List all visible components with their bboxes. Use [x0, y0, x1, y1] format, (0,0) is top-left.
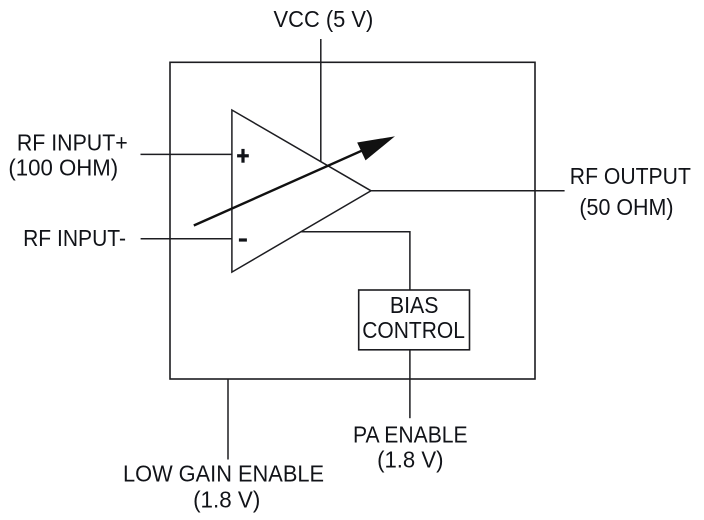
svg-text:PA ENABLE: PA ENABLE — [353, 421, 468, 447]
svg-text:(100 OHM): (100 OHM) — [8, 154, 118, 180]
wire VCC vertical — [320, 39, 322, 162]
svg-text:(1.8 V): (1.8 V) — [193, 486, 260, 512]
svg-text:LOW GAIN ENABLE: LOW GAIN ENABLE — [123, 460, 324, 486]
svg-text:(1.8 V): (1.8 V) — [377, 446, 443, 472]
minus input marker — [239, 238, 247, 241]
plus input marker — [237, 149, 249, 163]
bias control block — [359, 290, 470, 350]
wire RF input+ — [141, 153, 232, 155]
svg-text:RF INPUT+: RF INPUT+ — [17, 130, 128, 156]
svg-text:BIAS: BIAS — [390, 292, 439, 318]
variable-gain arrow head — [358, 137, 393, 160]
svg-text:VCC (5 V): VCC (5 V) — [274, 6, 374, 32]
op-amp amplifier triangle — [232, 110, 371, 272]
wire PA enable — [409, 350, 411, 418]
svg-text:RF OUTPUT: RF OUTPUT — [570, 163, 691, 189]
wire RF input- — [141, 238, 232, 240]
variable-gain arrow shaft — [194, 141, 383, 225]
svg-text:(50 OHM): (50 OHM) — [579, 194, 673, 220]
device outline box — [170, 62, 535, 379]
wire bias tap — [301, 232, 410, 290]
wire RF output — [371, 190, 565, 192]
svg-text:RF INPUT-: RF INPUT- — [23, 225, 126, 251]
wire low gain enable — [227, 379, 229, 459]
svg-text:CONTROL: CONTROL — [362, 317, 465, 343]
